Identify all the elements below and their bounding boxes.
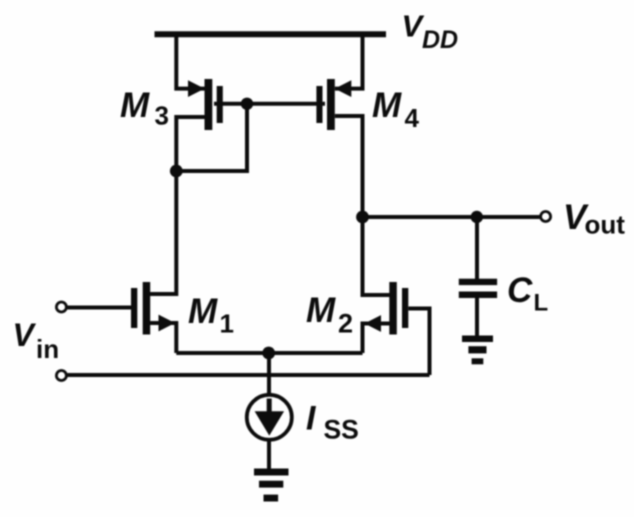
svg-text:V: V: [13, 317, 37, 353]
svg-text:out: out: [585, 210, 626, 240]
svg-text:1: 1: [220, 309, 234, 339]
svg-text:C: C: [507, 271, 533, 310]
svg-text:M: M: [372, 86, 402, 125]
svg-text:in: in: [36, 334, 59, 364]
svg-text:3: 3: [155, 101, 169, 131]
svg-text:L: L: [534, 290, 549, 317]
svg-text:SS: SS: [324, 415, 359, 445]
svg-text:M: M: [188, 292, 218, 331]
svg-text:2: 2: [338, 309, 353, 339]
svg-text:M: M: [306, 291, 336, 330]
svg-text:DD: DD: [422, 26, 458, 54]
svg-text:4: 4: [405, 103, 420, 133]
svg-text:I: I: [306, 400, 317, 438]
svg-text:M: M: [120, 86, 150, 125]
